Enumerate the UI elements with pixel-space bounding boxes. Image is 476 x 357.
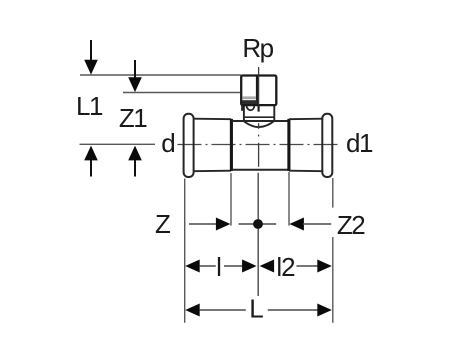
extension line right step: [288, 172, 290, 226]
svg-text:L: L: [249, 294, 263, 324]
svg-text:L1: L1: [76, 91, 103, 121]
branch neck right: [273, 105, 275, 121]
tee body right socket: [289, 118, 323, 121]
extension line left step: [230, 173, 232, 226]
l arrow right: [224, 265, 243, 267]
l2 arrow left: [260, 260, 275, 273]
arrow Z1 down: [134, 60, 136, 80]
dimension line Z1 top: [123, 92, 241, 94]
cup under box: [246, 105, 254, 110]
arrow L1 down: [90, 40, 92, 62]
extension line right end lower: [332, 237, 334, 323]
dimension line axis left: [80, 143, 156, 145]
box left tail: [241, 105, 243, 111]
extension line right end upper: [332, 178, 334, 208]
tee body left bell: [184, 114, 194, 177]
svg-text:d1: d1: [346, 128, 373, 158]
body bottom edge: [231, 169, 289, 171]
thread dark band: [242, 100, 257, 104]
svg-text:l: l: [216, 252, 222, 282]
svg-text:Z2: Z2: [337, 210, 365, 240]
box divider: [256, 76, 258, 105]
Z center stub: [239, 223, 277, 225]
dimension line L1 top: [80, 74, 241, 76]
svg-text:Z1: Z1: [119, 103, 147, 133]
body top edge: [231, 120, 289, 122]
right step: [287, 119, 290, 171]
branch centerline vertical: [258, 67, 260, 167]
centerline horizontal: [178, 144, 341, 146]
Z2 arrow left: [289, 218, 304, 231]
l arrow left: [185, 260, 200, 273]
arrow L1 up: [84, 146, 98, 161]
Z leader: [189, 223, 217, 225]
extension line left end: [184, 179, 186, 323]
l2 arrow right: [297, 265, 319, 267]
Z arrow right: [216, 218, 231, 231]
L arrow right: [268, 309, 318, 311]
arrow Z1 up: [128, 146, 142, 161]
threaded box Rp: [241, 76, 276, 106]
saddle arc: [244, 121, 274, 127]
center dot: [253, 219, 263, 229]
Z2 leader: [303, 223, 331, 225]
thread light band: [243, 96, 256, 99]
svg-text:Z: Z: [155, 209, 171, 239]
tee body left socket: [193, 118, 231, 121]
L arrow left: [185, 304, 200, 317]
svg-text:l2: l2: [276, 252, 295, 282]
left step: [230, 119, 233, 171]
branch neck left: [243, 105, 245, 121]
svg-text:d: d: [161, 128, 175, 158]
tee body right bell: [322, 114, 332, 177]
extension line branch center: [257, 173, 259, 296]
svg-text:Rp: Rp: [242, 33, 273, 63]
branch base line: [244, 116, 274, 118]
